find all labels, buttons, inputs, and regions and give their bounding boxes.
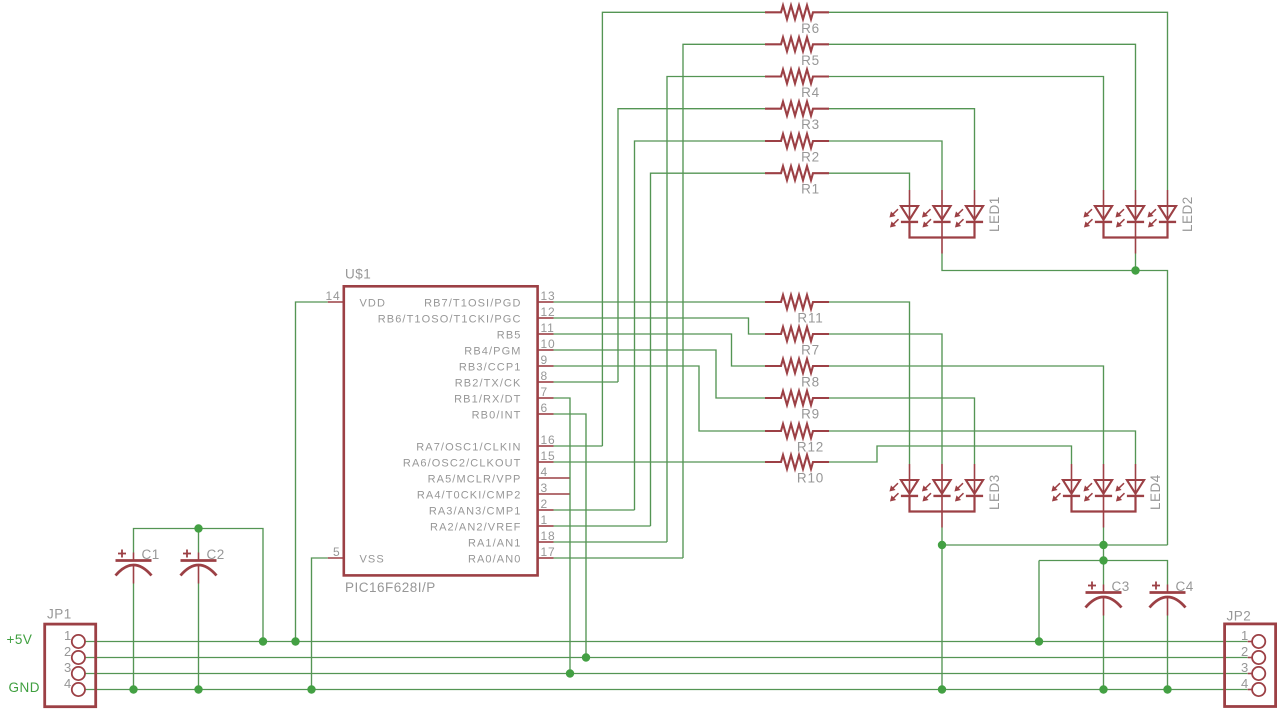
wire R12 to LED4.C [829,431,1136,464]
svg-text:U$1: U$1 [345,267,371,282]
wire net R1 to LED anode [829,173,910,190]
svg-text:+5V: +5V [7,632,33,647]
wire pin16 to R6 vertical [554,445,603,447]
pin 7 RB1/RX/DT [538,397,554,399]
wire C1 C2 top net [134,529,264,642]
wire LED2 cathode drop [1135,254,1137,271]
LED LED4.B [1103,464,1105,496]
svg-text:JP2: JP2 [1227,609,1252,624]
pin 1 of JP1 [72,635,85,648]
wire pin17 to R5 vertical [554,557,684,559]
pin 3 of JP1 [72,667,85,680]
svg-text:14: 14 [326,289,341,303]
svg-text:2: 2 [1241,644,1249,659]
LED LED2.B [1135,190,1137,222]
resistor R3 [765,102,829,116]
resistor R6 [765,5,829,19]
resistor R2 [765,134,829,148]
cathode bus LED3 [910,496,975,512]
wire net R6 left [602,12,765,446]
wire R7 to LED3.B [829,334,942,464]
wire net R3 left [618,109,765,382]
resistor R1 [765,166,829,180]
LED LED3.B [941,464,943,496]
wire LED4 cathode drop [1103,528,1105,561]
wire pin11 jog to R8 [554,334,766,366]
pin 1 RA2/AN2/VREF [538,525,554,527]
pin 17 RA0/AN0 [538,557,554,559]
wire pin9 jog to R12 [554,366,766,431]
svg-text:1: 1 [64,628,72,643]
wire rail 2 [85,657,1248,659]
svg-text:4: 4 [1241,676,1249,691]
svg-text:PIC16F628I/P: PIC16F628I/P [345,580,436,595]
svg-text:R4: R4 [801,85,820,100]
svg-text:13: 13 [541,289,556,303]
pin 2 RA3/AN3/CMP1 [538,509,554,511]
resistor R7 [765,327,829,341]
junction at 295.5,641.5 [291,637,299,645]
LED LED1.B [941,190,943,222]
LED LED2.A [1103,190,1105,222]
svg-text:3: 3 [64,660,72,675]
svg-text:R5: R5 [801,53,820,68]
wire rail 3 [85,673,1248,675]
svg-text:R6: R6 [801,21,820,36]
junction at 942,689.5 [938,685,946,693]
wire net R5 to LED anode [829,44,1136,190]
pin 18 RA1/AN1 [538,541,554,543]
wire pin1 to R1 vertical [554,525,651,527]
pin 12 RB6/T1OSO/T1CKI/PGC [538,317,554,319]
pin 13 RB7/T1OSI/PGD [538,301,554,303]
pin 16 RA7/OSC1/CLKIN [538,445,554,447]
pin 6 RB0/INT [538,413,554,415]
junction at 942,545 [938,541,946,549]
svg-text:RA2/AN2/VREF: RA2/AN2/VREF [430,522,521,534]
wire R11 to LED3.A [829,302,910,464]
LED LED1.A [909,190,911,222]
wire GND rail [85,689,1248,691]
svg-text:LED2: LED2 [1180,196,1195,232]
pin 9 RB3/CCP1 [538,365,554,367]
svg-text:RA3/AN3/CMP1: RA3/AN3/CMP1 [429,506,522,518]
cathode bus LED1 [910,222,975,238]
svg-text:C4: C4 [1176,579,1194,594]
connector JP1 body [45,624,96,707]
svg-text:1: 1 [1241,628,1249,643]
pin 5 VSS [328,557,344,559]
svg-text:RB5: RB5 [497,330,522,342]
wire LED3 common to GND rail [941,545,943,690]
wire C3 top [1103,561,1105,585]
cathode bus LED4 [1072,496,1136,512]
svg-text:LED1: LED1 [987,196,1002,232]
LED LED1.C [974,190,976,222]
junction at 570,673.5 [566,669,574,677]
pin 15 RA6/OSC2/CLKOUT [538,461,554,463]
svg-text:5: 5 [333,545,340,559]
svg-text:18: 18 [541,529,556,543]
plus sign C4 [1152,585,1160,587]
svg-text:RB3/CCP1: RB3/CCP1 [459,362,522,374]
wire net R1 left [651,173,766,526]
wire C1 bottom to GND [133,584,135,690]
pin 3 RA4/T0CKI/CMP2 [538,493,570,495]
svg-text:LED4: LED4 [1148,474,1163,510]
wire C3 C4 top net [1039,561,1168,585]
svg-text:10: 10 [541,337,556,351]
pin 14 VDD [328,301,344,303]
svg-text:RB6/T1OSO/T1CKI/PGC: RB6/T1OSO/T1CKI/PGC [378,314,522,326]
svg-text:RB1/RX/DT: RB1/RX/DT [454,394,521,406]
svg-text:9: 9 [541,353,548,367]
wire VSS pin5 to GND rail [312,558,328,690]
svg-text:C2: C2 [207,547,225,562]
svg-text:3: 3 [541,481,548,495]
svg-text:C3: C3 [1112,579,1130,594]
svg-text:R1: R1 [801,182,820,197]
capacitor C3 [1103,585,1105,593]
resistor R9 [765,391,829,405]
junction at 198.5,689.5 [194,685,202,693]
svg-text:3: 3 [1241,660,1249,675]
svg-text:LED3: LED3 [987,474,1002,510]
plus sign C1 [118,553,126,555]
wire C4 bottom to GND [1167,616,1169,690]
svg-text:RB2/TX/CK: RB2/TX/CK [455,378,522,390]
pin 8 RB2/TX/CK [538,381,554,383]
pin 11 RB5 [538,333,554,335]
resistor R5 [765,37,829,51]
wire VDD pin14 to +5V rail [296,302,328,642]
capacitor C2 [198,553,200,561]
svg-text:JP1: JP1 [47,607,72,622]
junction at 263,641.5 [259,637,267,645]
wire net R3 to LED anode [829,109,975,190]
wire LED3 LED4 common [942,528,1168,546]
junction at 1103.5,545 [1099,541,1107,549]
svg-text:R10: R10 [797,471,824,486]
svg-text:8: 8 [541,369,548,383]
LED LED3.A [909,464,911,496]
pin 4 of JP1 [72,683,85,696]
svg-text:16: 16 [541,433,556,447]
svg-text:R3: R3 [801,117,820,132]
svg-text:1: 1 [541,513,548,527]
svg-text:R7: R7 [801,343,820,358]
LED LED2.C [1167,190,1169,222]
svg-text:RA5/MCLR/VPP: RA5/MCLR/VPP [428,474,522,486]
wire net R6 to LED anode [829,12,1168,190]
resistor R10 [765,455,829,469]
capacitor C4 [1167,585,1169,593]
pin 1 of JP2 [1252,635,1265,648]
pin 2 of JP1 [72,651,85,664]
svg-text:RA1/AN1: RA1/AN1 [468,538,522,550]
svg-text:7: 7 [541,385,548,399]
svg-text:R8: R8 [801,375,820,390]
wire R10 to LED4.A [829,446,1072,464]
svg-text:RA4/T0CKI/CMP2: RA4/T0CKI/CMP2 [417,490,522,502]
IC U$1 body [344,286,538,575]
capacitor C1 [133,553,135,561]
plus sign C3 [1088,585,1096,587]
resistor R12 [765,424,829,438]
svg-text:11: 11 [541,321,555,335]
svg-text:2: 2 [64,644,72,659]
wire pin15 to R10 [554,461,766,463]
junction at 1103.5,689.5 [1099,685,1107,693]
cathode bus LED2 [1104,222,1168,238]
junction at 1039,641.5 [1035,637,1043,645]
wire net R2 left [635,141,766,510]
svg-text:RA0/AN0: RA0/AN0 [468,554,522,566]
pin 4 RA5/MCLR/VPP [538,477,570,479]
wire pin2 to R2 vertical [554,509,635,511]
wire +5V rail [85,641,1248,643]
wire net R5 left [683,44,765,558]
wire common net to +5V rail [1038,561,1040,642]
junction at 311.5,689.5 [307,685,315,693]
svg-text:RB0/INT: RB0/INT [472,410,522,422]
wire C2 top [198,529,200,553]
junction at 1135.5,270.5 [1131,266,1139,274]
resistor R8 [765,359,829,373]
junction at 1167.5,689.5 [1163,685,1171,693]
wire LED1 LED2 common [942,254,1168,546]
wire pin8 to R3 vertical [554,381,619,383]
svg-text:4: 4 [541,465,548,479]
svg-text:4: 4 [64,676,72,691]
wire net R2 to LED anode [829,141,942,190]
resistor R4 [765,70,829,84]
svg-text:C1: C1 [142,547,160,562]
LED LED4.C [1135,464,1137,496]
LED LED3.C [974,464,976,496]
junction at 1103.5,560.5 [1099,556,1107,564]
wire R9 to LED3.C [829,398,975,464]
svg-text:RA7/OSC1/CLKIN: RA7/OSC1/CLKIN [416,442,521,454]
wire R8 to LED4.B [829,366,1104,464]
resistor R11 [765,295,829,309]
svg-text:15: 15 [541,449,556,463]
pin 2 of JP2 [1252,651,1265,664]
pin 4 of JP2 [1252,683,1265,696]
junction at 198.5,528.5 [194,524,202,532]
svg-text:RA6/OSC2/CLKOUT: RA6/OSC2/CLKOUT [403,458,522,470]
junction at 133.5,689.5 [129,685,137,693]
wire C3 bottom to GND [1103,616,1105,690]
wire pin7 down to rail3 [554,398,571,674]
svg-text:12: 12 [541,305,556,319]
pin 10 RB4/PGM [538,349,554,351]
wire pin13 to R11 [554,301,766,303]
plus sign C2 [183,553,191,555]
LED LED4.A [1071,464,1073,496]
svg-text:RB4/PGM: RB4/PGM [464,346,521,358]
wire net R4 to LED anode [829,77,1104,191]
wire net R4 left [667,77,765,543]
wire pin6 down to rail2 [554,414,587,658]
svg-text:17: 17 [541,545,556,559]
svg-text:R2: R2 [801,150,820,165]
svg-text:R12: R12 [797,440,824,455]
connector JP2 body [1225,624,1276,707]
svg-text:2: 2 [541,497,548,511]
svg-text:R11: R11 [797,311,823,326]
wire pin12 jog to R7 [554,318,766,334]
svg-text:GND: GND [9,680,41,695]
svg-text:VDD: VDD [360,298,387,310]
svg-text:RB7/T1OSI/PGD: RB7/T1OSI/PGD [424,298,521,310]
svg-text:VSS: VSS [360,554,385,566]
svg-text:R9: R9 [801,407,820,422]
wire pin10 jog to R9 [554,350,766,398]
pin 3 of JP2 [1252,667,1265,680]
junction at 586,657.5 [582,653,590,661]
wire pin18 to R4 vertical [554,541,668,543]
svg-text:6: 6 [541,401,548,415]
wire C2 bottom to GND [198,584,200,690]
